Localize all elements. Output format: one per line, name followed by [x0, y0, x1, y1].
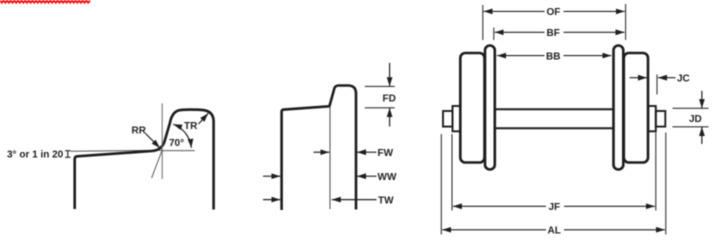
axle body — [494, 109, 614, 128]
JF dimension line right — [564, 205, 655, 207]
svg-text:70°: 70° — [169, 138, 184, 149]
svg-text:JD: JD — [689, 114, 702, 125]
svg-text:BF: BF — [547, 28, 560, 39]
right journal collar — [648, 106, 656, 131]
FD down arrow — [389, 63, 391, 86]
WW left arrow — [357, 175, 377, 177]
svg-text:OF: OF — [547, 7, 561, 18]
JF dimension line left — [453, 205, 546, 207]
svg-text:AL: AL — [548, 226, 561, 237]
JD bottom extension line — [673, 126, 709, 128]
BF dimension line left — [495, 31, 545, 33]
right wheel body — [624, 53, 648, 163]
svg-text:FW: FW — [378, 148, 394, 159]
JD down arrow — [701, 91, 703, 108]
right wheel flange — [614, 46, 624, 170]
svg-text:JF: JF — [549, 202, 561, 213]
JD top extension line — [673, 107, 709, 109]
TR leader arrow — [199, 113, 209, 124]
BB dimension line right — [564, 55, 612, 57]
AL dimension line right — [564, 229, 665, 231]
OF dimension line left — [484, 10, 545, 12]
JF right extension line — [655, 133, 657, 211]
thin vertical construction line — [161, 103, 163, 179]
svg-text:TW: TW — [378, 196, 394, 207]
rim cross-section outline — [282, 86, 356, 211]
AL dimension line left — [442, 229, 546, 231]
70 degree arc with arrows — [173, 124, 191, 148]
BB dimension line left — [497, 55, 545, 57]
JF left extension line — [451, 134, 453, 211]
TW left arrow — [332, 199, 377, 201]
WW right arrow — [263, 175, 280, 177]
left wheel body — [460, 53, 484, 163]
thin horizontal reference line at root — [162, 150, 195, 152]
svg-text:JC: JC — [677, 74, 690, 85]
left wheel flange — [485, 46, 495, 170]
TW right arrow — [263, 199, 280, 201]
svg-text:WW: WW — [378, 172, 397, 183]
OF left extension line — [482, 5, 484, 40]
left journal collar — [453, 106, 461, 131]
thin 70-degree construction line below root — [152, 150, 163, 178]
svg-text:BB: BB — [546, 51, 560, 62]
red torn-edge zigzag top left — [0, 1, 90, 3]
OF dimension line right — [564, 10, 625, 12]
svg-text:RR: RR — [132, 125, 147, 136]
left journal — [443, 111, 453, 127]
wheel tread profile outline — [75, 110, 214, 210]
RR leader arrow — [146, 134, 161, 149]
svg-text:TR: TR — [184, 121, 198, 132]
FD up arrow — [389, 108, 391, 127]
JD up arrow — [701, 127, 703, 144]
JC extension line — [656, 75, 658, 95]
FW right arrow — [314, 151, 330, 153]
AL right extension line — [665, 133, 667, 235]
FD top extension line — [365, 85, 395, 87]
JC left arrow — [658, 77, 676, 79]
taper tick mark — [65, 151, 71, 158]
JC right arrow — [630, 77, 648, 79]
taper reference line — [71, 150, 162, 151]
BF left extension line — [493, 28, 495, 41]
BF dimension line right — [564, 31, 625, 33]
AL left extension line — [440, 134, 442, 235]
FD bottom extension line — [365, 107, 395, 109]
right journal — [656, 111, 666, 127]
FW left arrow — [357, 151, 377, 153]
thin flange-face line — [329, 106, 331, 209]
OF right extension line — [625, 4, 627, 40]
svg-text:3° or 1 in 20: 3° or 1 in 20 — [7, 150, 64, 161]
svg-text:FD: FD — [383, 94, 396, 105]
